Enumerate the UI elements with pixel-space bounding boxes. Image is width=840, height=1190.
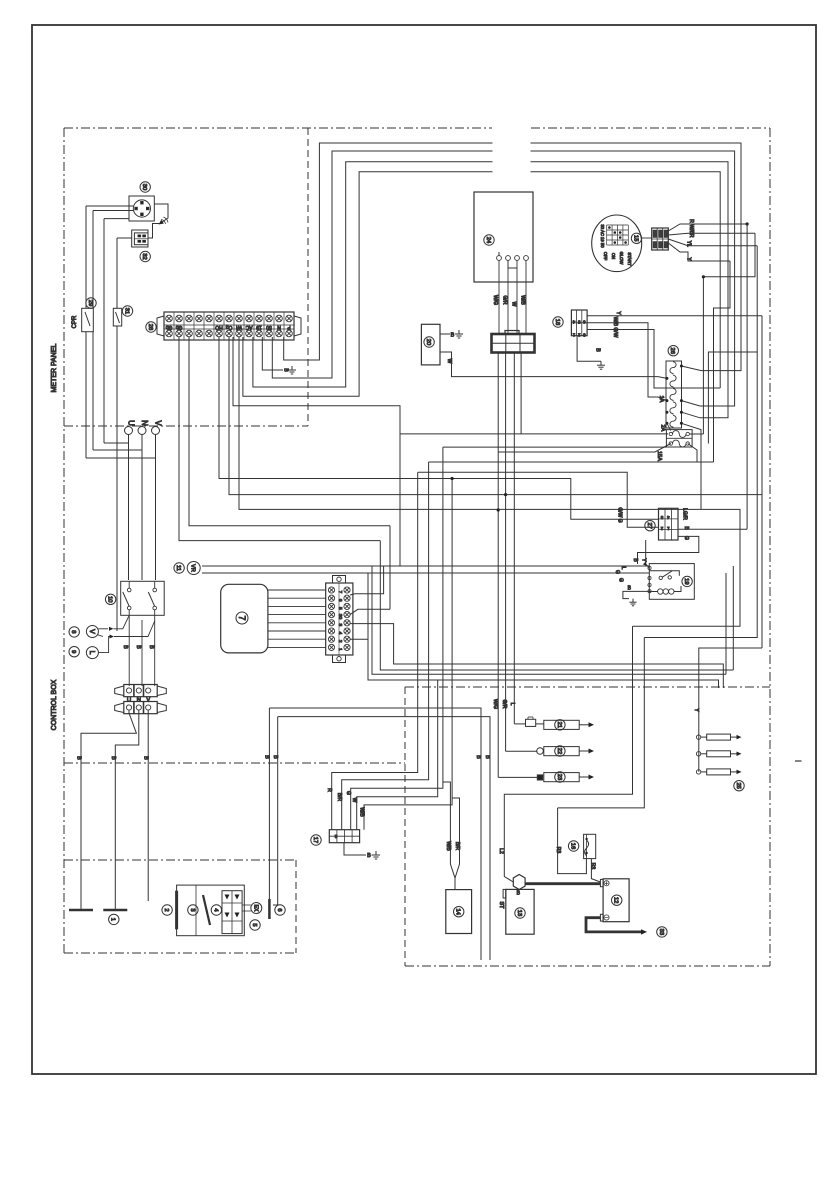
svg-text:7: 7 xyxy=(337,591,343,594)
svg-text:U: U xyxy=(127,698,131,704)
svg-text:W/G: W/G xyxy=(492,699,498,709)
svg-text:B: B xyxy=(143,756,149,760)
svg-text:U: U xyxy=(127,420,136,426)
svg-text:30 AC 19 50: 30 AC 19 50 xyxy=(600,224,605,248)
svg-text:V: V xyxy=(154,420,163,426)
svg-text:GLOW: GLOW xyxy=(619,252,624,265)
svg-text:N: N xyxy=(140,420,149,426)
svg-text:17: 17 xyxy=(312,837,318,843)
svg-text:30: 30 xyxy=(337,614,343,620)
svg-text:W: W xyxy=(511,302,517,307)
svg-text:ST: ST xyxy=(498,901,504,909)
svg-text:26: 26 xyxy=(669,347,675,353)
svg-text:31: 31 xyxy=(123,308,129,314)
svg-text:ON: ON xyxy=(611,253,616,259)
svg-text:OFF: OFF xyxy=(603,252,608,261)
svg-text:G: G xyxy=(345,791,351,795)
svg-text:YL: YL xyxy=(686,241,692,247)
svg-text:1: 1 xyxy=(337,648,343,651)
svg-text:B: B xyxy=(122,645,128,649)
svg-text:R: R xyxy=(688,219,694,223)
svg-text:5: 5 xyxy=(337,607,343,610)
svg-text:CONTROL BOX: CONTROL BOX xyxy=(51,679,58,730)
svg-text:Y: Y xyxy=(693,708,699,712)
svg-text:20: 20 xyxy=(425,339,431,345)
svg-text:W/B G/W: W/B G/W xyxy=(612,317,618,338)
svg-text:B: B xyxy=(475,755,481,759)
svg-text:B: B xyxy=(517,891,521,897)
svg-text:START: START xyxy=(627,252,632,266)
svg-text:28: 28 xyxy=(147,324,153,330)
svg-text:5: 5 xyxy=(577,320,580,325)
svg-text:G/W G: G/W G xyxy=(616,507,622,522)
svg-text:B: B xyxy=(484,755,490,759)
svg-text:6: 6 xyxy=(583,320,586,325)
svg-text:14: 14 xyxy=(455,908,461,915)
svg-text:B: B xyxy=(76,756,82,760)
svg-text:LG/R: LG/R xyxy=(682,508,688,520)
svg-text:15A: 15A xyxy=(656,451,662,461)
svg-text:G: G xyxy=(683,536,689,540)
svg-text:3: 3 xyxy=(337,623,343,626)
svg-text:G: G xyxy=(614,570,620,574)
svg-text:W/B: W/B xyxy=(520,295,526,305)
svg-text:L: L xyxy=(620,567,626,570)
svg-text:V: V xyxy=(88,629,95,634)
svg-text:33: 33 xyxy=(658,929,664,935)
svg-text:1: 1 xyxy=(572,333,575,338)
svg-text:B: B xyxy=(148,645,154,649)
svg-text:B/R: B/R xyxy=(336,793,342,802)
svg-text:3: 3 xyxy=(583,333,586,338)
svg-text:6: 6 xyxy=(276,908,282,911)
svg-text:B: B xyxy=(628,586,632,592)
svg-text:16: 16 xyxy=(570,843,576,849)
svg-text:VR: VR xyxy=(190,564,196,572)
svg-text:W: W xyxy=(446,359,452,364)
svg-text:EX: EX xyxy=(253,905,259,912)
svg-text:L: L xyxy=(88,651,95,655)
svg-text:G/R: G/R xyxy=(502,296,508,305)
svg-text:N: N xyxy=(137,698,141,704)
svg-text:B: B xyxy=(135,645,141,649)
svg-text:R: R xyxy=(326,788,332,792)
svg-text:21: 21 xyxy=(556,722,562,728)
svg-text:9: 9 xyxy=(70,650,76,653)
svg-text:22: 22 xyxy=(556,748,562,754)
svg-text:10: 10 xyxy=(107,596,113,602)
svg-text:B: B xyxy=(594,348,600,352)
svg-text:B: B xyxy=(272,755,278,759)
svg-text:2: 2 xyxy=(337,640,343,643)
svg-text:19: 19 xyxy=(683,578,689,584)
svg-text:Y: Y xyxy=(615,311,621,315)
svg-text:11: 11 xyxy=(175,565,181,571)
svg-text:2: 2 xyxy=(577,333,580,338)
svg-text:12: 12 xyxy=(613,897,619,903)
svg-text:W/B: W/B xyxy=(359,807,365,817)
svg-text:R3: R3 xyxy=(589,863,595,870)
svg-text:B: B xyxy=(110,756,116,760)
svg-text:W: W xyxy=(351,798,357,803)
svg-text:G: G xyxy=(617,578,623,582)
svg-text:B: B xyxy=(264,755,270,759)
svg-text:W/BR: W/BR xyxy=(688,224,694,237)
svg-text:27: 27 xyxy=(646,522,652,528)
svg-text:13: 13 xyxy=(516,910,522,916)
svg-text:4: 4 xyxy=(337,632,343,635)
svg-text:B: B xyxy=(367,853,371,859)
svg-text:4: 4 xyxy=(572,320,575,325)
svg-text:V: V xyxy=(146,698,150,704)
svg-text:24: 24 xyxy=(485,237,491,244)
svg-text:METER PANEL: METER PANEL xyxy=(51,343,58,392)
svg-text:2A: 2A xyxy=(660,425,666,432)
svg-text:18: 18 xyxy=(554,319,560,325)
svg-text:W/G: W/G xyxy=(492,295,498,305)
svg-text:1: 1 xyxy=(110,918,116,921)
svg-text:1A: 1A xyxy=(658,396,664,403)
svg-text:B: B xyxy=(632,558,638,562)
svg-text:15: 15 xyxy=(632,235,638,241)
svg-text:1: 1 xyxy=(667,526,670,531)
svg-text:30: 30 xyxy=(141,184,147,190)
svg-text:4: 4 xyxy=(212,908,218,912)
svg-text:6: 6 xyxy=(337,599,343,602)
svg-text:3: 3 xyxy=(189,908,195,911)
svg-text:B: B xyxy=(451,333,455,339)
svg-text:23: 23 xyxy=(556,774,562,780)
svg-text:B/R: B/R xyxy=(454,842,460,851)
svg-text:8: 8 xyxy=(70,630,76,633)
svg-text:L: L xyxy=(509,703,515,706)
svg-text:7: 7 xyxy=(237,615,247,620)
svg-text:29: 29 xyxy=(87,300,93,306)
svg-text:5: 5 xyxy=(251,923,257,926)
svg-text:W/B: W/B xyxy=(445,841,451,851)
svg-text:2: 2 xyxy=(660,526,663,531)
svg-text:25: 25 xyxy=(735,782,741,788)
svg-text:L2: L2 xyxy=(498,848,504,854)
svg-text:2: 2 xyxy=(163,908,169,911)
svg-text:32: 32 xyxy=(141,253,147,259)
svg-text:CPR: CPR xyxy=(72,315,78,328)
